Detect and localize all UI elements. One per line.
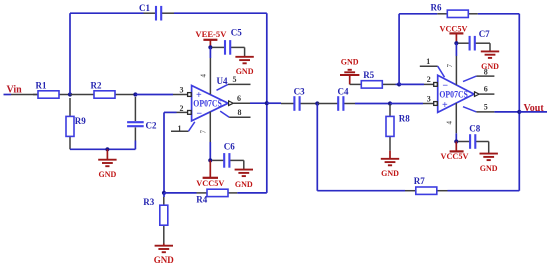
- node B junction R2-C2: [133, 92, 137, 96]
- U4 pin 5 stub: [217, 75, 251, 90]
- svg-text:8: 8: [238, 108, 242, 117]
- U5 pin 1: [420, 57, 445, 77]
- U4 pin 8 stub: [220, 108, 250, 117]
- wire R6 node vertical up: [398, 14, 400, 85]
- U4 pin 2: [177, 104, 192, 114]
- svg-text:2: 2: [427, 75, 431, 84]
- node Vout junction: [517, 110, 521, 114]
- svg-text:R3: R3: [143, 197, 154, 207]
- wire R7 to Vout vertical: [448, 190, 520, 192]
- U4 designator: [217, 76, 228, 86]
- svg-text:3: 3: [427, 94, 431, 103]
- node Vin: [7, 85, 23, 96]
- node VCC junction stage2 bottom: [454, 139, 458, 143]
- resistor R4: [196, 189, 237, 204]
- wire pin6 to output node: [250, 102, 267, 104]
- svg-text:GND: GND: [236, 67, 254, 76]
- power VCC5V symbol stage2 bottom: [441, 142, 469, 161]
- capacitor C5: [212, 27, 245, 54]
- svg-text:R6: R6: [431, 3, 442, 13]
- U5 pin 6 output: [475, 85, 495, 97]
- wire output node vertical: [266, 13, 268, 193]
- resistor R7: [405, 176, 448, 195]
- svg-text:1: 1: [178, 124, 182, 133]
- wire junction to R3: [163, 193, 165, 197]
- U4 pin 3: [173, 85, 191, 96]
- svg-text:VCC5V: VCC5V: [196, 179, 224, 188]
- wire R4 to output node: [237, 192, 266, 194]
- svg-text:R2: R2: [91, 81, 102, 91]
- wire output node to C3: [267, 102, 281, 104]
- ground GND under R8: [381, 151, 399, 179]
- svg-text:VCC5V: VCC5V: [441, 152, 469, 161]
- node R4-R3 junction: [162, 191, 166, 195]
- power VEE-5V symbol: [195, 30, 226, 48]
- svg-text:1: 1: [426, 57, 430, 66]
- resistor R2: [70, 81, 120, 99]
- resistor R5: [350, 70, 396, 88]
- wire junction to R4: [164, 192, 197, 194]
- wire C4 to R8 node: [355, 103, 390, 105]
- svg-text:VCC5V: VCC5V: [440, 24, 468, 33]
- U4 pin 1: [171, 122, 195, 133]
- wire Vin to R1 pin: [11, 94, 38, 96]
- resistor R9: [66, 98, 86, 149]
- U4 pin 7 power wire: [200, 112, 211, 161]
- node VCC junction stage2 top: [454, 41, 458, 45]
- svg-text:R9: R9: [75, 116, 86, 126]
- node U4 output: [265, 101, 269, 105]
- wire Vin input stub: [4, 94, 12, 96]
- capacitor C3: [281, 86, 317, 111]
- svg-text:R7: R7: [414, 176, 425, 186]
- wire U4 pin2 vertical: [163, 112, 165, 192]
- svg-text:C1: C1: [139, 3, 150, 13]
- wire C3C4 node down: [316, 104, 318, 191]
- resistor R8: [386, 104, 410, 151]
- svg-text:GND: GND: [381, 169, 399, 178]
- svg-text:R8: R8: [399, 113, 410, 123]
- node R8 junction: [388, 101, 392, 105]
- svg-text:GND: GND: [154, 255, 175, 265]
- wire Vout stub: [519, 111, 547, 113]
- svg-text:OP07CS: OP07CS: [193, 99, 222, 109]
- op-amp U4 triangle: [192, 86, 229, 121]
- capacitor C6: [212, 141, 244, 167]
- wire R2 to node B: [120, 94, 135, 96]
- svg-text:R1: R1: [36, 81, 47, 91]
- capacitor C1: [139, 3, 174, 20]
- svg-text:Vout: Vout: [524, 103, 545, 114]
- wire C2 to ground wire: [134, 141, 136, 150]
- svg-text:6: 6: [237, 94, 241, 103]
- ground GND under C7: [481, 43, 499, 71]
- wire R8 node to U5 pin3: [390, 103, 423, 105]
- node VCC junction stage1: [208, 158, 212, 162]
- junction ground wire: [105, 147, 109, 151]
- U5 pin 8 stub: [463, 68, 494, 82]
- wire pin5 to Vout: [494, 111, 519, 113]
- svg-text:C6: C6: [224, 141, 235, 151]
- U5 pin 2: [424, 75, 437, 86]
- U4 pin 6 output: [229, 94, 250, 106]
- U5 pin 3: [423, 94, 437, 105]
- resistor R6: [431, 3, 478, 18]
- power VCC5V symbol stage2 top: [440, 24, 468, 43]
- svg-text:R4: R4: [196, 194, 207, 204]
- U4 pin 4 power wire: [200, 47, 211, 94]
- capacitor C2: [127, 97, 157, 141]
- ground GND under R9: [98, 149, 116, 179]
- wire right vertical Vout net: [518, 14, 520, 191]
- power VCC5V symbol stage1: [196, 160, 224, 188]
- ground GND under C8: [480, 142, 498, 174]
- wire top left to C1: [70, 12, 144, 14]
- wire node A up to C1: [69, 13, 71, 94]
- ground GND under R3: [154, 244, 175, 266]
- wire C1 to output node: [174, 12, 267, 14]
- svg-text:7: 7: [200, 130, 208, 134]
- wire top right to R6: [399, 13, 437, 15]
- node VEE junction: [208, 45, 212, 49]
- U4 pin 2 wire: [164, 111, 177, 113]
- node A junction R1-R2-C1-R9: [68, 92, 72, 96]
- svg-text:7: 7: [446, 64, 454, 68]
- U5 pin 5: [463, 103, 494, 112]
- wire R5 to R6 node: [396, 83, 400, 85]
- svg-text:R5: R5: [363, 70, 374, 80]
- U5 pin 4 power wire: [446, 103, 457, 142]
- ground GND above R5: [340, 58, 359, 85]
- svg-text:C3: C3: [294, 86, 305, 96]
- resistor R3: [143, 197, 168, 244]
- svg-text:C4: C4: [338, 86, 349, 96]
- svg-text:4: 4: [200, 74, 208, 78]
- ground GND under C5: [235, 47, 253, 76]
- op-amp U5 triangle: [438, 75, 474, 112]
- svg-text:OP07CS: OP07CS: [439, 90, 468, 100]
- svg-text:GND: GND: [99, 170, 117, 179]
- node Vout label: [524, 103, 545, 114]
- svg-text:5: 5: [233, 75, 237, 84]
- U5 pin 7 power wire: [446, 43, 456, 85]
- svg-text:C7: C7: [479, 29, 490, 39]
- svg-text:2: 2: [180, 104, 184, 113]
- svg-text:4: 4: [446, 121, 454, 125]
- svg-text:C2: C2: [146, 121, 157, 131]
- capacitor C8: [458, 123, 489, 149]
- capacitor C4: [317, 86, 355, 111]
- svg-text:3: 3: [180, 85, 184, 94]
- svg-text:GND: GND: [480, 164, 498, 173]
- wire R6 to right vertical: [478, 13, 520, 15]
- svg-text:GND: GND: [481, 62, 499, 71]
- svg-text:VEE-5V: VEE-5V: [195, 30, 226, 39]
- node R5-R6-pin2 junction: [397, 82, 401, 86]
- svg-text:5: 5: [484, 103, 488, 112]
- resistor R1: [33, 81, 70, 99]
- wire R6 node to U5 pin2: [399, 83, 424, 85]
- capacitor C7: [458, 29, 490, 50]
- svg-text:+: +: [442, 100, 448, 111]
- svg-text:−: −: [196, 109, 202, 120]
- svg-text:6: 6: [484, 85, 488, 94]
- ground GND under C6: [235, 160, 253, 189]
- node C3-C4-R7 junction: [315, 101, 319, 105]
- svg-text:GND: GND: [341, 58, 359, 67]
- wire R9 bottom to C2 bottom: [70, 148, 135, 150]
- svg-text:C5: C5: [231, 27, 242, 37]
- svg-text:C8: C8: [469, 123, 480, 133]
- svg-text:GND: GND: [235, 180, 253, 189]
- wire node B to U4 pin3: [135, 94, 173, 96]
- wire bottom feedback left: [317, 190, 405, 192]
